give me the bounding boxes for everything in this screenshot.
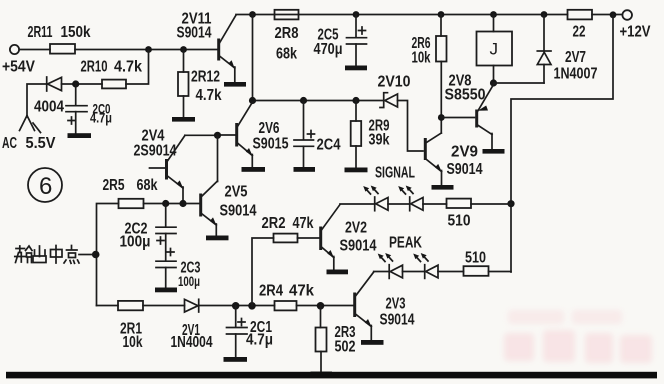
svg-text:10k: 10k	[412, 50, 431, 67]
node 2R3 top	[317, 302, 325, 310]
resistor 510 (signal)	[447, 199, 472, 208]
resistor 2R2	[274, 234, 298, 243]
svg-text:2V10: 2V10	[378, 74, 411, 91]
wire stub to midpoint label	[79, 254, 92, 256]
capacitor 2C3	[156, 249, 176, 288]
svg-text:J: J	[490, 40, 499, 59]
svg-text:47k: 47k	[289, 283, 314, 300]
resistor 2R12	[178, 50, 189, 118]
node 2C1 top	[232, 302, 240, 310]
resistor 2R5	[119, 199, 144, 208]
diode 2V1	[185, 299, 199, 312]
ground 2C0	[68, 133, 92, 138]
bottom border bar	[6, 372, 657, 379]
svg-text:2V6: 2V6	[259, 120, 280, 137]
svg-text:470μ: 470μ	[314, 41, 343, 58]
resistor 22	[568, 10, 593, 20]
wire D4 to 510	[438, 271, 464, 273]
svg-text:2V7: 2V7	[565, 49, 586, 66]
ground 2V9	[432, 185, 454, 190]
ground 2V2	[327, 270, 349, 275]
wire 2R5 to 2V5 base	[144, 203, 200, 205]
wire diode to AC input	[27, 84, 47, 117]
diode 2V10 zener	[380, 93, 423, 151]
svg-text:2V3: 2V3	[386, 296, 406, 313]
wire junction down to 2R10	[126, 50, 149, 85]
wire node down to 2V5 collector	[217, 135, 219, 181]
diode 4004	[47, 77, 62, 91]
capacitor 2C0	[66, 84, 87, 133]
ground 2R3	[311, 372, 333, 377]
node 2R2 branch	[248, 302, 256, 310]
node J bottom	[490, 79, 497, 86]
svg-text:2R4: 2R4	[259, 283, 283, 300]
wire 2V1 to 2R4	[199, 305, 275, 307]
LED D4 (peak)	[425, 265, 438, 279]
LED D1 arrows	[363, 186, 378, 195]
svg-text:47k: 47k	[293, 215, 314, 232]
wire 2R10 to diode node	[62, 83, 103, 85]
svg-text:100μ: 100μ	[178, 273, 200, 289]
wire 510 to +12V column	[471, 203, 511, 205]
svg-text:2R11: 2R11	[28, 24, 53, 41]
ground 2V3	[361, 340, 384, 345]
node rail x441	[438, 11, 445, 18]
wire 2R1 row	[97, 305, 119, 307]
transistor 2V5	[201, 181, 218, 236]
svg-text:4.7μ: 4.7μ	[246, 332, 273, 349]
LED D2 (signal)	[410, 197, 423, 211]
svg-text:S9014: S9014	[380, 312, 415, 329]
resistor 2R10	[102, 80, 126, 89]
wire 510 peak to column	[489, 271, 512, 273]
svg-text:S9014: S9014	[177, 25, 212, 42]
svg-text:22: 22	[573, 24, 586, 41]
transistor 2V3	[355, 272, 374, 340]
node diode/cap junction	[72, 80, 79, 87]
LED D4 arrows	[413, 253, 428, 262]
wire top power rail	[236, 14, 568, 16]
LED D3 (peak)	[389, 265, 402, 279]
ground 2V6	[242, 167, 266, 172]
ground 2C4	[294, 167, 316, 172]
wire midpoint column	[97, 204, 119, 306]
svg-text:150k: 150k	[61, 24, 91, 41]
svg-text:10k: 10k	[123, 334, 143, 351]
svg-text:2V9: 2V9	[451, 144, 478, 161]
node junction top wire left	[145, 46, 152, 53]
svg-text:5.5V: 5.5V	[26, 135, 56, 152]
transistor 2V11	[219, 15, 236, 82]
capacitor 2C1	[227, 306, 248, 357]
node rail x493	[490, 11, 497, 18]
terminal +12V	[622, 10, 632, 20]
wire 22 to +12V terminal	[592, 14, 622, 16]
LED D3 arrows	[378, 253, 393, 262]
wire 2R2 branch up	[252, 238, 274, 306]
wire 2V2 collector to LEDs	[340, 203, 375, 205]
svg-text:510: 510	[448, 213, 471, 230]
svg-text:4.7μ: 4.7μ	[90, 110, 112, 126]
node rail x356	[353, 11, 360, 18]
wire 2R4 to 2V3 base	[297, 305, 354, 307]
svg-text:PEAK: PEAK	[389, 235, 422, 252]
svg-text:4004: 4004	[34, 99, 64, 116]
svg-text:100μ: 100μ	[120, 234, 151, 251]
svg-text:S9014: S9014	[220, 203, 257, 220]
diode 2V7	[537, 15, 551, 84]
svg-text:2R5: 2R5	[103, 177, 125, 194]
wire 2R2 to 2V2 base	[298, 237, 320, 239]
svg-text:+54V: +54V	[2, 59, 35, 76]
ground 2C3	[155, 288, 177, 293]
wire R11 to 2V11 base	[75, 49, 217, 51]
wire +12V feed down to LED column	[511, 15, 613, 273]
resistor 2R3	[316, 306, 327, 373]
svg-text:2R12: 2R12	[191, 69, 220, 86]
svg-text:+12V: +12V	[620, 24, 651, 41]
svg-text:2R10: 2R10	[81, 59, 108, 76]
LED D2 arrows	[398, 186, 413, 195]
svg-text:502: 502	[335, 339, 356, 356]
resistor 2R4	[275, 301, 297, 310]
svg-text:1N4004: 1N4004	[171, 334, 213, 351]
resistor 2R8	[275, 10, 299, 20]
resistor 2R1	[118, 301, 143, 310]
node 2R9 top	[352, 97, 359, 104]
wire 2V4 collector to node	[185, 134, 218, 136]
node +12V junction	[610, 11, 617, 18]
node 2R6 / 2V8 base	[438, 114, 445, 121]
ground 2V8	[483, 149, 505, 154]
wire D1 to D2	[388, 203, 410, 205]
svg-text:S9014: S9014	[340, 238, 377, 255]
svg-text:4.7k: 4.7k	[196, 87, 222, 104]
transistor 2V8	[477, 85, 494, 150]
AC input fork symbol	[20, 116, 41, 133]
node 2V6 collector	[249, 97, 256, 104]
ground 2R12	[172, 117, 195, 122]
wire J bottom to diode 2V7	[494, 82, 545, 84]
svg-text:2C4: 2C4	[317, 137, 341, 154]
node 2C4 top	[300, 97, 307, 104]
svg-text:510: 510	[465, 250, 486, 267]
LED D1 (signal)	[375, 197, 388, 211]
svg-text:68k: 68k	[137, 177, 158, 194]
node 2V4 emitter	[179, 200, 186, 207]
node 2C2 top	[162, 200, 169, 207]
label 输出中点 (output midpoint)	[15, 246, 79, 264]
wire 2V8 base	[441, 117, 474, 119]
wire rail junction down to 2V6 collector node	[252, 15, 254, 101]
ground 2C5	[345, 66, 367, 71]
resistor 2R9	[351, 101, 362, 168]
transistor 2V6	[219, 102, 253, 167]
svg-text:S9014: S9014	[447, 161, 483, 178]
svg-text:2R2: 2R2	[262, 215, 286, 232]
resistor 2R11	[50, 44, 75, 54]
resistor 2R6	[436, 15, 447, 134]
svg-text:S8550: S8550	[445, 87, 486, 104]
wire terminal to R11	[19, 49, 50, 51]
ground 2R9	[345, 168, 368, 173]
wire 2R1 to diode 2V1	[143, 305, 185, 307]
resistor 510 (peak)	[464, 266, 489, 276]
capacitor 2C4	[294, 101, 315, 168]
circled 6	[28, 168, 62, 202]
svg-text:1N4007: 1N4007	[554, 66, 598, 83]
ground 2C1	[224, 357, 248, 362]
ground 2V11 emitter	[224, 82, 246, 87]
svg-text:2R8: 2R8	[275, 25, 299, 42]
capacitor 2C5	[347, 15, 367, 66]
terminal +54V input	[10, 45, 19, 54]
node 510 junction	[507, 200, 514, 207]
watermark pink	[504, 310, 652, 363]
node rail x253	[249, 11, 256, 18]
capacitor 2C2	[156, 204, 176, 261]
svg-text:2V5: 2V5	[225, 184, 248, 201]
svg-text:2V2: 2V2	[345, 220, 367, 237]
transistor 2V9	[425, 133, 442, 185]
transistor 2V4	[150, 135, 186, 203]
svg-text:68k: 68k	[276, 46, 297, 63]
svg-text:AC: AC	[2, 135, 17, 152]
svg-text:39k: 39k	[369, 132, 390, 149]
wire node row y100	[253, 100, 384, 102]
svg-text:S9015: S9015	[253, 136, 289, 153]
ground 2V5	[206, 236, 229, 241]
node rail x544	[541, 11, 548, 18]
node junction top wire right	[180, 46, 187, 53]
transistor 2V2	[321, 205, 340, 270]
svg-text:4.7k: 4.7k	[114, 59, 142, 76]
svg-text:6: 6	[39, 173, 52, 200]
node 2V4/2V5/2V6	[214, 132, 221, 139]
wire D3 to D4	[403, 271, 425, 273]
terminal output midpoint node	[92, 251, 100, 259]
wire D2 to 510	[423, 203, 447, 205]
wire 2V3 collector to LEDs	[374, 271, 389, 273]
svg-text:SIGNAL: SIGNAL	[375, 165, 415, 182]
relay J box	[477, 15, 513, 84]
